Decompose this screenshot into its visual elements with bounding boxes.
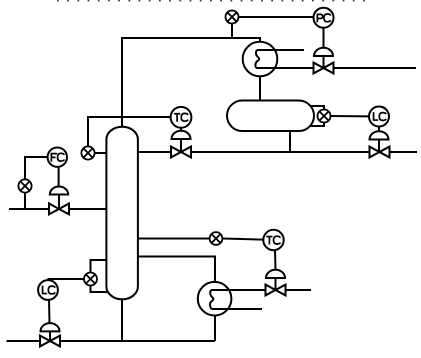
reboiler E2 (198, 282, 240, 316)
wire: condensate line (211, 308, 262, 310)
wire: temperature signal to TC (88, 117, 171, 147)
valve: reflux (171, 147, 191, 158)
wire: bottom temperature sensor to TC (222, 239, 263, 240)
wire: drum level bridle top tap (310, 106, 325, 110)
wire: reboiler bottom outlet (214, 316, 216, 342)
wire: column level bridle top tap (91, 260, 108, 273)
wire: column level bridle bottom tap (91, 285, 108, 292)
wire: column bottom downcomer (121, 299, 123, 341)
wire: feed line (9, 208, 107, 210)
wire: LC to valve actuator (48, 300, 51, 323)
wire: drum level sensor signal to LC (330, 115, 369, 117)
wire: TC to valve actuator (274, 250, 277, 270)
temperature sensor top (81, 146, 94, 159)
column level sensor (84, 273, 97, 286)
wire: level sensor signal to LC (49, 279, 85, 281)
wire: condenser to reflux drum (259, 76, 261, 101)
wire: TC actuator stem top (180, 139, 182, 152)
controller TC top (171, 107, 192, 128)
wire: steam line (211, 289, 311, 291)
distillation column (106, 127, 137, 300)
actuator: TC valve bottom (266, 270, 285, 278)
wire: PC actuator stem (323, 56, 325, 68)
actuator: PC valve (314, 48, 333, 56)
wire: cooling water outlet line (256, 67, 416, 69)
controller TC bottom (263, 230, 283, 250)
wire: LC actuator stem (49, 331, 51, 341)
wire: signal pressure sensor to PC (239, 16, 314, 18)
cropped text artifacts top edge (57, 0, 371, 2)
wire: FC signal to flow sensor (25, 157, 48, 180)
wire: TC to valve actuator top (180, 128, 182, 131)
valve: steam (266, 285, 286, 296)
reflux drum (227, 101, 314, 132)
pressure sensor (226, 11, 239, 24)
wire: pressure tap stub (231, 24, 233, 39)
flow sensor (18, 179, 31, 192)
wire: temperature sensor stub to column (94, 152, 107, 154)
bottom temperature sensor (210, 232, 223, 245)
actuator: TC valve (172, 131, 191, 139)
wire: reflux drum bottom outlet (289, 131, 291, 152)
wire: LC to valve actuator right (378, 127, 380, 132)
actuator: FC valve (50, 187, 68, 195)
wire: drum level bridle bottom tap (310, 122, 325, 126)
wire: flow sensor to feed line (24, 193, 26, 210)
wire: LC actuator stem right (378, 140, 380, 153)
wire: cooling water inlet stub (257, 49, 304, 51)
wire: reboiler return to column (138, 257, 216, 283)
controller LC bottom (38, 280, 58, 300)
wire: FC to valve actuator (58, 167, 60, 187)
wire: bottom temperature tap to sensor (138, 238, 210, 240)
controller LC right (369, 107, 389, 127)
drum level sensor (318, 110, 331, 123)
wire: FC actuator stem (58, 195, 60, 210)
wire: reflux and distillate line (138, 151, 418, 153)
valve: feed (49, 204, 69, 215)
condenser E1 (243, 42, 304, 77)
wire: PC to valve actuator (323, 28, 325, 48)
wire: bottoms product line (7, 340, 216, 342)
wire: overhead vapor line column top to condenser (122, 38, 260, 128)
actuator: LC valve bottom (41, 323, 60, 331)
wire: TC actuator stem (275, 278, 277, 290)
actuator: LC valve right (370, 131, 389, 139)
valve: distillate (370, 147, 390, 158)
valve: bottoms product (40, 336, 60, 347)
valve: condenser cooling water (314, 63, 334, 74)
controller PC (314, 8, 334, 28)
controller FC (48, 148, 67, 167)
